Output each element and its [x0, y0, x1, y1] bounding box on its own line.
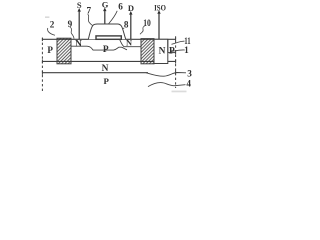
- dashed right boundary line: [175, 36, 177, 88]
- N sinker box: [154, 39, 168, 63]
- svg-text:8: 8: [124, 19, 129, 29]
- leader 8: [119, 28, 124, 34]
- wire ISO lead: [158, 13, 160, 39]
- svg-text:P: P: [47, 45, 53, 55]
- node buried layer bottom line B: [42, 72, 148, 74]
- node epi bottom line A: [42, 60, 175, 62]
- svg-text:N: N: [159, 47, 166, 57]
- leader 1: [171, 50, 185, 52]
- svg-text:N: N: [75, 39, 82, 49]
- tick surface right end: [175, 38, 177, 42]
- tick line A right: [175, 59, 177, 63]
- wire G lead: [104, 11, 106, 24]
- svg-text:7: 7: [87, 6, 92, 16]
- drain N junction line: [120, 39, 142, 46]
- svg-text:N: N: [126, 39, 132, 48]
- wire D lead: [130, 14, 132, 39]
- wire S lead: [78, 11, 80, 39]
- svg-text:3: 3: [187, 69, 192, 79]
- svg-text:N: N: [102, 64, 109, 74]
- leader 6: [109, 11, 118, 24]
- leader 3: [146, 73, 186, 77]
- tick leader 3 at boundary: [175, 71, 177, 75]
- tick line A left: [41, 59, 43, 63]
- leader 11: [172, 41, 185, 44]
- arrowhead ISO: [157, 10, 160, 14]
- leader 7: [88, 14, 96, 27]
- svg-text:P: P: [103, 45, 109, 55]
- tick surface left end: [41, 38, 43, 42]
- scan smudge bottom right: [172, 91, 187, 93]
- arrowhead D: [129, 11, 132, 15]
- leader 9: [70, 27, 74, 39]
- leader 2: [48, 28, 55, 35]
- svg-text:1: 1: [184, 45, 189, 55]
- tick line B left: [41, 71, 43, 75]
- leader 4: [148, 83, 186, 87]
- trench isolation 2 (hatched): [57, 38, 71, 64]
- leader 10: [140, 26, 145, 34]
- svg-text:6: 6: [118, 1, 123, 11]
- svg-text:P: P: [169, 46, 175, 56]
- wire surface line: [42, 38, 175, 40]
- gate oxide dome 7: [88, 24, 126, 39]
- P contact region right: [168, 39, 176, 54]
- scan smudge above label 2: [45, 16, 49, 18]
- gate electrode bar 6: [96, 36, 121, 39]
- svg-text:G: G: [102, 0, 109, 10]
- arrowhead G: [103, 8, 106, 12]
- svg-text:2: 2: [50, 19, 55, 29]
- svg-text:4: 4: [186, 79, 191, 89]
- trench isolation 10 (hatched): [141, 39, 154, 64]
- dashed left boundary line: [41, 38, 43, 92]
- arrowhead S: [78, 8, 81, 12]
- source N junction line: [71, 46, 127, 50]
- svg-text:P: P: [104, 76, 110, 86]
- svg-text:ISO: ISO: [154, 3, 166, 13]
